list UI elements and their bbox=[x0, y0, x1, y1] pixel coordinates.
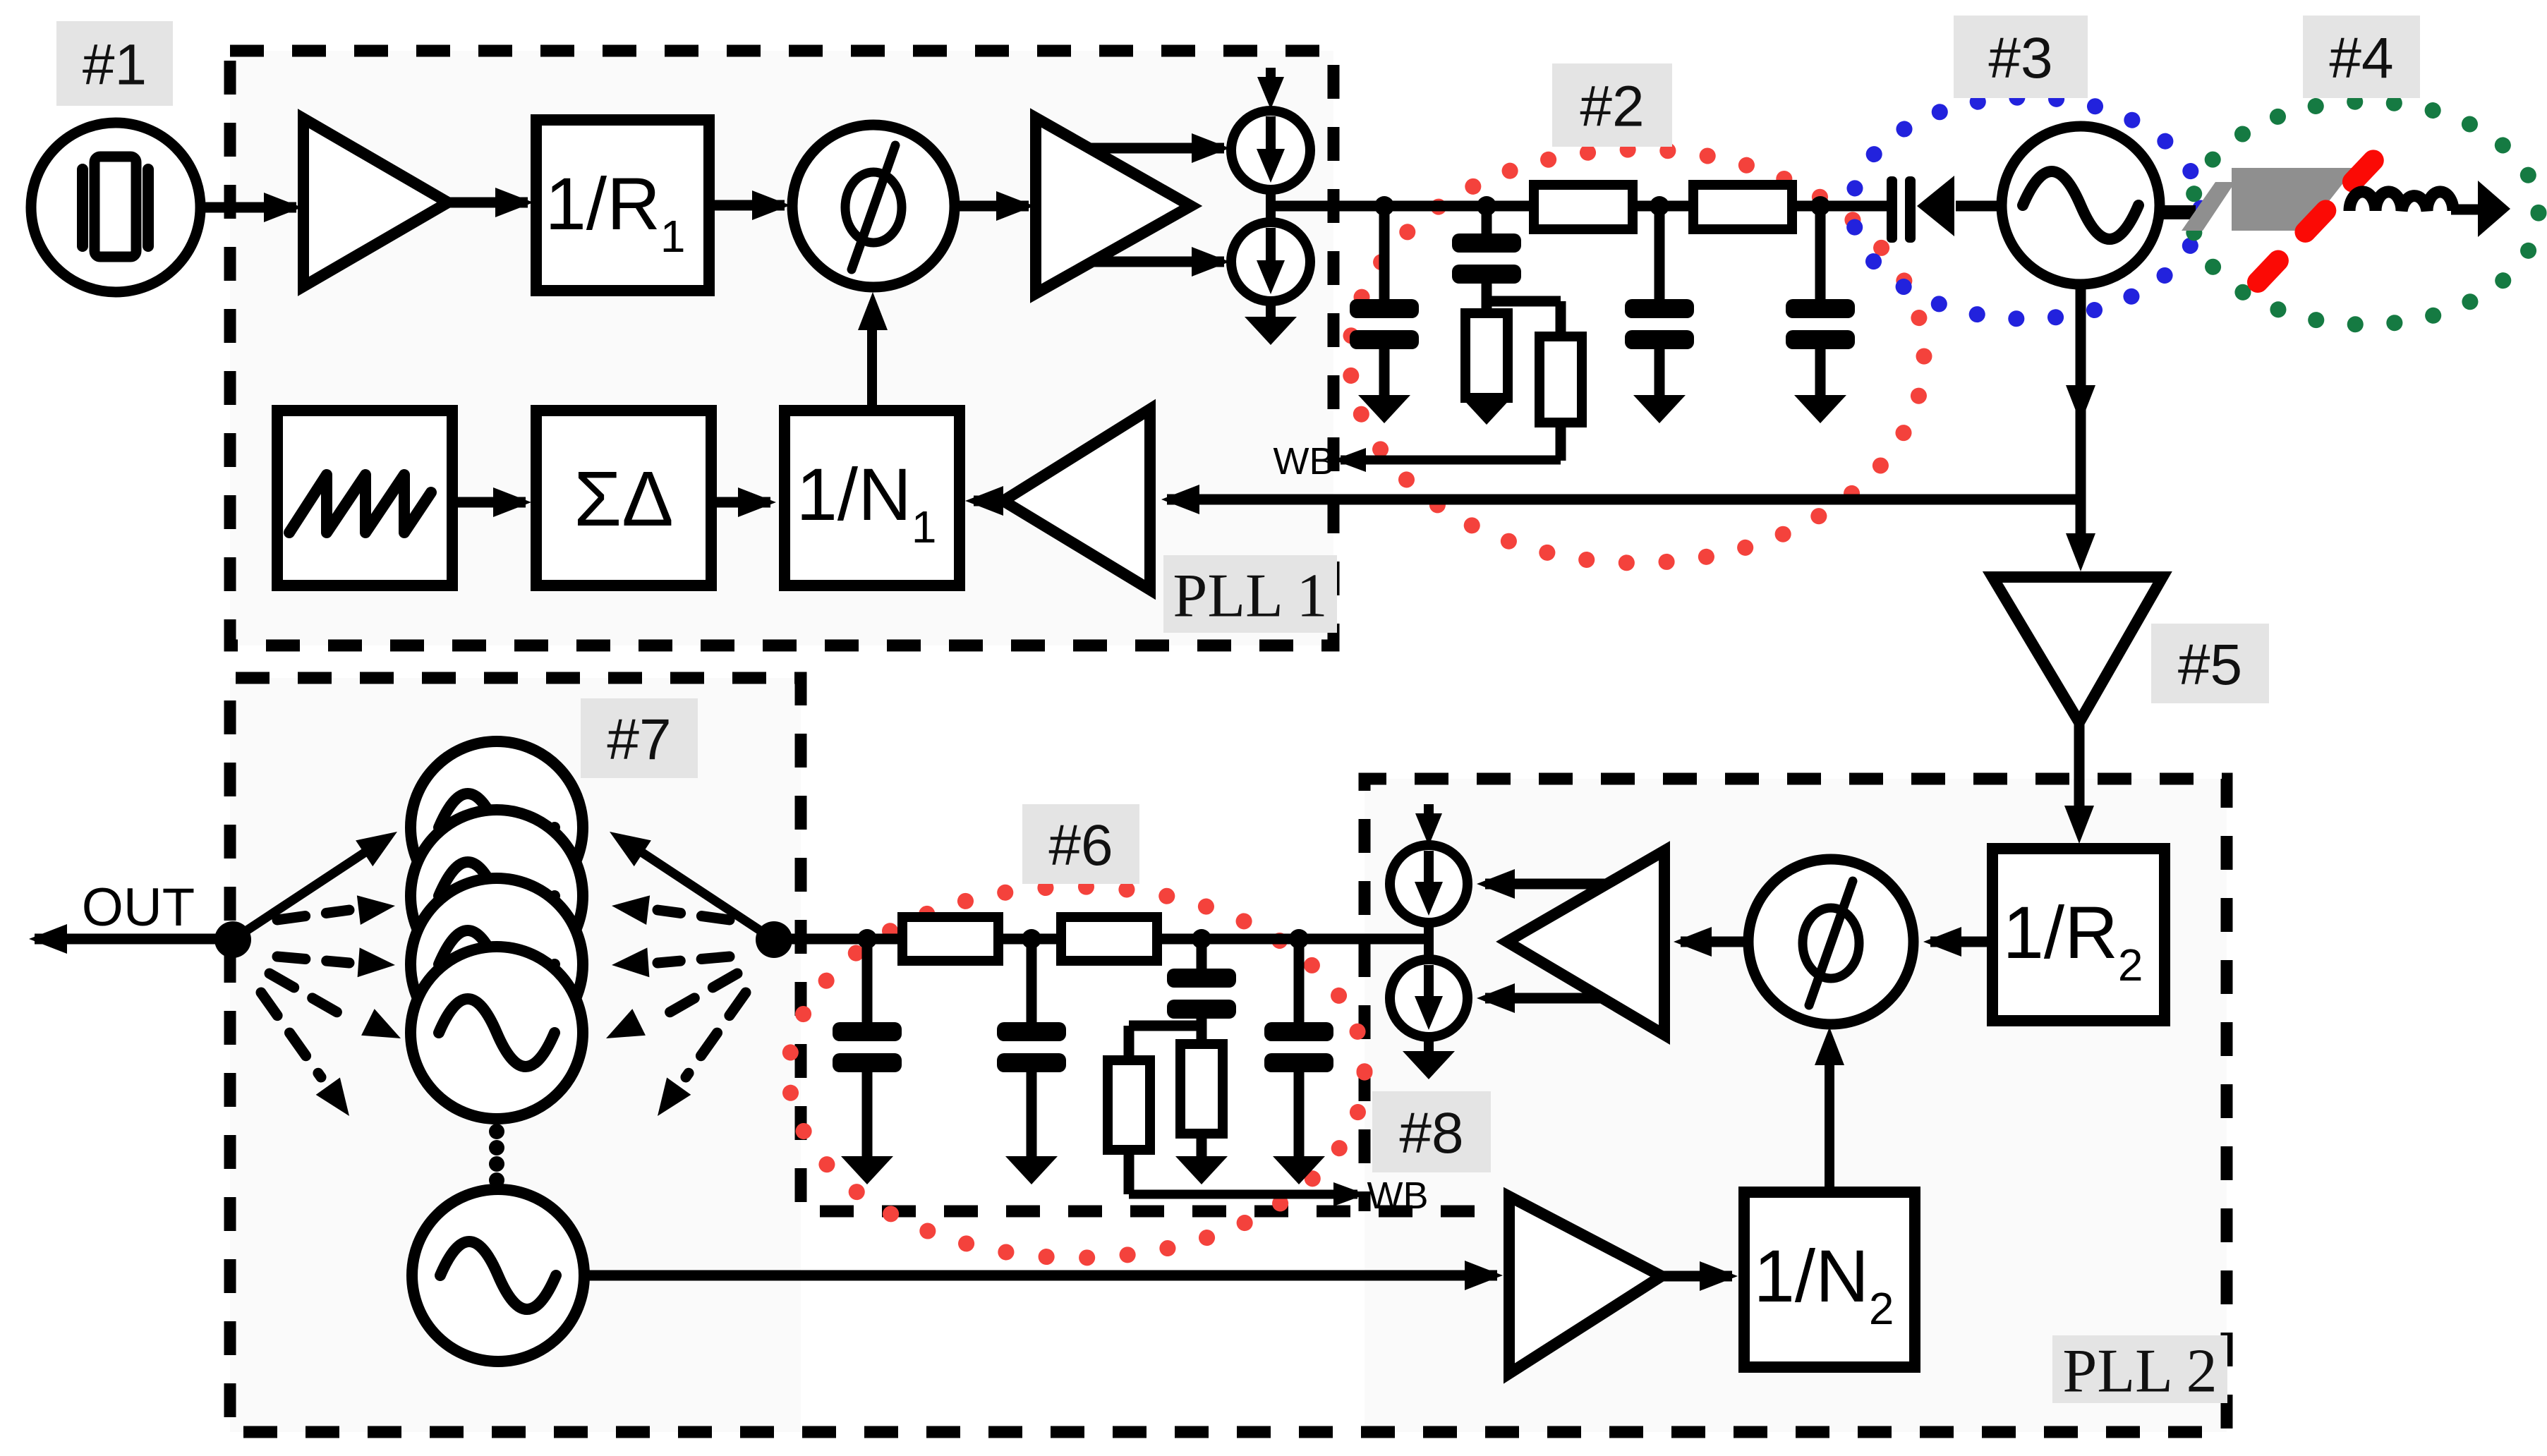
selector node right bbox=[756, 921, 792, 958]
selector node left bbox=[214, 921, 251, 958]
wire A4 to current source I3 bbox=[1485, 879, 1607, 890]
ellipsis dots bbox=[489, 1124, 504, 1139]
varactor diode D1 bbox=[1887, 176, 1897, 243]
loop filter 2 red dotted ellipse #6 bbox=[789, 887, 1365, 1258]
filter2 shunt capacitor C5 bbox=[862, 939, 873, 1022]
wire I1-I2 node bbox=[1266, 190, 1276, 223]
amplifier A4 (charge pump driver 2) bbox=[1507, 851, 1664, 1035]
amplifier A2 (charge pump driver) bbox=[1036, 118, 1191, 293]
current source I4 bbox=[1390, 959, 1468, 1037]
VCO-bank dashed border bbox=[230, 678, 2227, 1432]
svg-text:PLL 2: PLL 2 bbox=[2062, 1337, 2217, 1406]
filter1 branch wire bbox=[1487, 296, 1561, 307]
svg-text:#2: #2 bbox=[1580, 75, 1644, 139]
VCO bank #7 oscillator 4 bbox=[411, 947, 583, 1119]
wire PD2 to amp A4 bbox=[1681, 937, 1748, 947]
node J7 bbox=[1192, 929, 1211, 949]
feedback amplifier A3 bbox=[1003, 409, 1150, 590]
label #8 bbox=[1372, 1091, 1491, 1172]
filter2 shunt capacitor C6 bbox=[1027, 939, 1037, 1022]
VCO-bank block background bbox=[230, 678, 801, 1432]
loop filter 2 main wire bbox=[774, 934, 1429, 945]
node J4 bbox=[1810, 196, 1830, 216]
sigma-delta block bbox=[536, 411, 711, 586]
filter1 resistor R4 (to WB) bbox=[1556, 301, 1566, 336]
filter2 series resistor R6 bbox=[1061, 917, 1157, 961]
divider block 1/R1 bbox=[536, 120, 709, 291]
label #3 bbox=[1954, 16, 2088, 98]
filter2 resistor R7 (to WB) bbox=[1108, 1060, 1150, 1150]
svg-text:WB: WB bbox=[1273, 440, 1335, 483]
buffer #4 gray shape bbox=[2232, 168, 2355, 231]
filter1 series resistor R1 bbox=[1534, 185, 1633, 229]
VCO bank #7 oscillator 3 bbox=[411, 878, 583, 1050]
label #1 bbox=[56, 21, 173, 106]
current source I2 bbox=[1231, 222, 1310, 301]
PLL1 feedback wire bbox=[1167, 495, 2081, 505]
phase detector PD1 circle bbox=[792, 125, 955, 287]
filter1 shunt capacitor C1 bbox=[1379, 206, 1390, 299]
WB output wire 2 bbox=[1129, 1190, 1357, 1199]
filter1 series resistor R2 bbox=[1693, 185, 1792, 229]
current source I1 bbox=[1231, 111, 1310, 190]
wire A2 to current source I1 bbox=[1091, 143, 1224, 154]
svg-text:#6: #6 bbox=[1048, 813, 1113, 878]
filter2 resistor R8 (to ground) bbox=[1180, 1044, 1223, 1134]
filter2 shunt capacitor C8 bbox=[1294, 939, 1305, 1022]
filter2 branch wire bbox=[1129, 1021, 1202, 1031]
PLL 1 dashed border bbox=[230, 51, 1333, 645]
charge pump 1 ground bbox=[1266, 301, 1276, 317]
label #7 bbox=[581, 698, 698, 778]
svg-text:OUT: OUT bbox=[82, 878, 195, 938]
antenna output arrow bbox=[2451, 205, 2481, 215]
charge pump 2 supply feed bbox=[1424, 804, 1434, 827]
node J2 bbox=[1477, 196, 1496, 216]
divider block 1/N2 bbox=[1744, 1192, 1915, 1367]
VCO red -> blue dotted ellipse #3 bbox=[1852, 97, 2201, 319]
VCO bank #7 oscillator 1 bbox=[411, 741, 583, 914]
filter1 resistor R3 (to ground) bbox=[1465, 313, 1508, 398]
node J1 bbox=[1374, 196, 1394, 216]
wire varactor to VCO bbox=[1956, 201, 2004, 212]
WB output wire 1 bbox=[1341, 456, 1561, 465]
filter1 shunt capacitor C4 bbox=[1815, 206, 1826, 299]
filter1 shunt capacitor C3 bbox=[1654, 206, 1665, 299]
svg-text:WB: WB bbox=[1367, 1175, 1429, 1217]
wire A3 to 1/N1 bbox=[974, 496, 1003, 506]
red dashed strike-through bbox=[2258, 145, 2388, 282]
amplifier #5 bbox=[1992, 577, 2162, 722]
wire #5 to 1/R2 bbox=[2074, 722, 2085, 824]
svg-text:PLL 1: PLL 1 bbox=[1173, 562, 1327, 631]
wire 1/R1 to phase detector PD1 bbox=[709, 200, 785, 211]
label #6 bbox=[1022, 804, 1139, 884]
wire A1 to 1/R1 bbox=[448, 198, 528, 208]
VCO output down wire bbox=[2076, 284, 2086, 504]
svg-text:ΣΔ: ΣΔ bbox=[574, 456, 673, 542]
svg-text:#3: #3 bbox=[1988, 26, 2052, 90]
wire XO to amp A1 bbox=[200, 202, 296, 213]
output inductor L1 bbox=[2349, 192, 2453, 211]
PLL 2 block background bbox=[1365, 779, 2227, 1432]
svg-text:#1: #1 bbox=[83, 33, 147, 97]
wire 1/N2 to PD2 bbox=[1825, 1043, 1834, 1192]
wire SD to 1/N1 bbox=[711, 497, 770, 508]
selector arrows right bbox=[624, 841, 774, 940]
reference oscillator (bottom) bbox=[412, 1189, 584, 1361]
ramp generator block bbox=[277, 411, 452, 586]
label #4 bbox=[2303, 16, 2420, 98]
wire A5 to 1/N2 bbox=[1662, 1271, 1732, 1282]
wire 1/N1 to PD1 bbox=[867, 308, 877, 411]
node J3 bbox=[1650, 196, 1669, 216]
label PLL 2 bbox=[2052, 1335, 2227, 1403]
label #2 bbox=[1552, 63, 1672, 147]
node J6 bbox=[1022, 929, 1041, 949]
svg-text:#5: #5 bbox=[2178, 633, 2242, 697]
filter1 series capacitor C2 bbox=[1482, 206, 1492, 233]
label #5 bbox=[2151, 624, 2269, 703]
svg-text:#8: #8 bbox=[1399, 1101, 1463, 1165]
VCO bank #7 oscillator 2 bbox=[411, 810, 583, 982]
wire VCO to buffer #4 bbox=[2160, 205, 2196, 219]
phase detector PD2 circle bbox=[1748, 859, 1913, 1024]
crystal oscillator XO #1 bbox=[31, 123, 200, 292]
wire bottom oscillator to amp A5 bbox=[584, 1270, 1497, 1281]
svg-text:#4: #4 bbox=[2329, 26, 2393, 90]
node J8 bbox=[1289, 929, 1309, 949]
OUT wire bbox=[35, 934, 233, 945]
wire A2 to current source I2 bbox=[1092, 257, 1224, 267]
current source I3 bbox=[1390, 845, 1468, 923]
filter2 series resistor R5 bbox=[902, 917, 998, 961]
divider block 1/N1 bbox=[785, 411, 960, 586]
filter2 series capacitor C7 bbox=[1197, 939, 1207, 969]
charge pump 2 ground bbox=[1424, 1037, 1434, 1051]
PLL 1 block background bbox=[230, 51, 1333, 645]
loop filter 1 red dotted ellipse #2 bbox=[1350, 150, 1924, 563]
amplifier A1 bbox=[303, 119, 448, 286]
loop filter 1 main wire bbox=[1271, 201, 1888, 212]
divider block 1/R2 bbox=[1992, 849, 2165, 1021]
selector arrows left bbox=[233, 841, 382, 940]
VCO #3 circle bbox=[2002, 126, 2160, 284]
charge pump 1 supply feed bbox=[1266, 68, 1276, 90]
amplifier A5 bbox=[1509, 1196, 1662, 1373]
label PLL 1 bbox=[1163, 555, 1337, 633]
wire ramp to SD bbox=[452, 497, 526, 508]
svg-text:#7: #7 bbox=[607, 708, 671, 772]
wire PD1 to amp A2 bbox=[955, 201, 1029, 212]
wire A4 to current source I4 bbox=[1485, 993, 1602, 1004]
wire 1/R2 to PD2 bbox=[1930, 937, 1992, 947]
wire I3-I4 node bbox=[1424, 923, 1434, 961]
node J5 bbox=[857, 929, 877, 949]
wire to amp #5 bbox=[2076, 499, 2086, 553]
buffer green dotted ellipse #4 bbox=[2191, 102, 2539, 324]
